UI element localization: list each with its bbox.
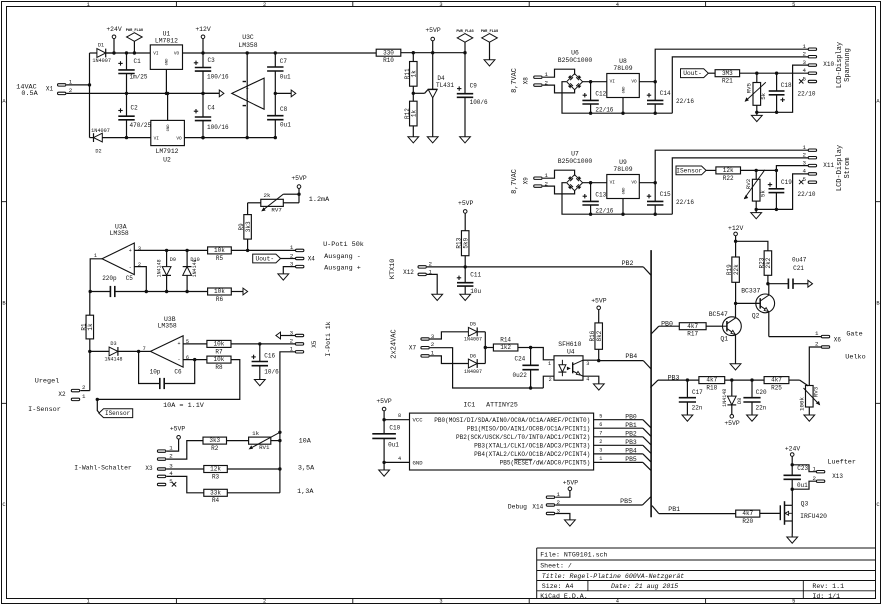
label 3,5A xyxy=(298,465,315,473)
svg-text:3: 3 xyxy=(439,2,442,8)
svg-text:C17: C17 xyxy=(692,389,703,396)
label 1.2mA xyxy=(309,196,330,204)
svg-text:R2: R2 xyxy=(211,445,219,452)
wire bridge minus U6 xyxy=(562,82,672,115)
svg-text:3,5A: 3,5A xyxy=(298,465,315,473)
svg-text:D2: D2 xyxy=(95,148,101,154)
svg-text:1k: 1k xyxy=(252,430,259,437)
svg-text:Uelko: Uelko xyxy=(845,353,865,361)
svg-text:File: NTG9101.sch: File: NTG9101.sch xyxy=(540,552,607,559)
svg-text:C16: C16 xyxy=(264,353,275,360)
svg-text:R22: R22 xyxy=(723,175,734,182)
svg-text:1N4007: 1N4007 xyxy=(464,369,482,375)
ground C11 xyxy=(460,294,471,300)
wire X3 pin2 to R2 xyxy=(166,441,203,460)
bus entry PB1 xyxy=(652,506,659,514)
trimmer RV5 xyxy=(745,73,768,114)
bridge rectifier U7 B250C1000 xyxy=(558,150,593,190)
ground below C9 xyxy=(460,137,471,143)
capacitor C1 xyxy=(118,51,148,95)
wire X14 pin2 PB5 xyxy=(555,498,642,505)
svg-text:2k2: 2k2 xyxy=(765,257,772,268)
svg-text:X6: X6 xyxy=(834,337,842,344)
ground below C16 xyxy=(254,380,265,386)
no-connect arrow R6 xyxy=(243,288,248,295)
bus entry PB4 xyxy=(643,361,651,369)
wire bridge minus U7 xyxy=(562,183,672,216)
svg-text:C11: C11 xyxy=(470,271,481,278)
svg-text:10A: 10A xyxy=(299,437,312,445)
wire U3B minus row xyxy=(183,358,207,361)
svg-text:2: 2 xyxy=(803,151,807,158)
svg-text:4k7: 4k7 xyxy=(706,377,717,384)
svg-text:2k: 2k xyxy=(264,192,271,199)
svg-text:R18: R18 xyxy=(706,385,717,392)
capacitor C6 feedback xyxy=(139,351,195,389)
svg-text:U-Poti 50k: U-Poti 50k xyxy=(323,241,364,249)
resistor R4 xyxy=(204,489,280,504)
svg-text:0u22: 0u22 xyxy=(512,372,527,379)
label Uout- flag X4 xyxy=(253,254,296,263)
svg-text:C3: C3 xyxy=(208,57,216,64)
wire X10 pin1 9V xyxy=(655,49,808,81)
ground RV3 xyxy=(804,415,815,421)
capacitor C16 xyxy=(251,344,279,380)
capacitor C13 xyxy=(582,183,613,215)
svg-text:R21: R21 xyxy=(722,78,733,85)
svg-text:1N4007: 1N4007 xyxy=(91,128,110,134)
svg-text:330: 330 xyxy=(383,49,394,56)
svg-text:C6: C6 xyxy=(174,368,182,375)
capacitor C2 xyxy=(118,93,151,139)
svg-text:5: 5 xyxy=(599,413,602,419)
power +5VP xyxy=(425,27,441,53)
svg-text:IRFU420: IRFU420 xyxy=(800,513,827,520)
svg-text:PB2(SCK/USCK/SCL/T0/INT0/ADC1/: PB2(SCK/USCK/SCL/T0/INT0/ADC1/PCINT2) xyxy=(456,434,590,441)
wire to R23 xyxy=(736,241,768,251)
wire C23 bot to X13 pin2 xyxy=(791,481,817,491)
resistor R20 xyxy=(736,510,760,525)
title block xyxy=(537,548,876,600)
svg-text:10k: 10k xyxy=(214,247,225,254)
label PB1 xyxy=(668,506,680,513)
svg-text:10A = 1.1V: 10A = 1.1V xyxy=(163,402,205,410)
svg-text:U3C: U3C xyxy=(242,34,254,41)
svg-text:X10: X10 xyxy=(823,61,834,68)
svg-text:C7: C7 xyxy=(280,58,288,65)
svg-text:D1: D1 xyxy=(98,43,104,49)
svg-text:LCD-Display: LCD-Display xyxy=(836,145,844,191)
svg-text:Strom: Strom xyxy=(844,157,852,178)
svg-text:3M3: 3M3 xyxy=(722,70,733,77)
capacitor C18 xyxy=(769,73,792,114)
svg-text:U9: U9 xyxy=(619,159,627,166)
resistor R6 xyxy=(208,288,243,303)
svg-text:+5VP: +5VP xyxy=(170,426,186,433)
wire X7 pin2 down xyxy=(430,348,543,390)
wire R8 to sense xyxy=(96,360,240,401)
diode D1 xyxy=(90,43,115,65)
svg-text:U7: U7 xyxy=(571,150,579,157)
svg-text:PB5(RESET/dW/ADC0/PCINT5): PB5(RESET/dW/ADC0/PCINT5) xyxy=(500,459,591,466)
ground C20 xyxy=(747,415,758,421)
wire X10 pin2 gnd xyxy=(672,57,808,113)
svg-text:1N4007: 1N4007 xyxy=(92,58,111,64)
label 8,7VAC 0 xyxy=(511,169,519,194)
svg-text:RV5: RV5 xyxy=(746,82,753,93)
svg-text:VO: VO xyxy=(631,79,637,84)
svg-text:12k: 12k xyxy=(210,466,221,473)
svg-text:Q3: Q3 xyxy=(801,501,809,508)
svg-text:LM358: LM358 xyxy=(110,230,129,237)
svg-text:10/6: 10/6 xyxy=(264,369,279,376)
svg-text:2: 2 xyxy=(290,337,294,344)
svg-text:1k2: 1k2 xyxy=(500,344,511,351)
svg-text:Rev: 1.1: Rev: 1.1 xyxy=(812,583,844,590)
wire PB2 line xyxy=(427,266,643,268)
svg-text:C8: C8 xyxy=(280,106,288,113)
svg-text:VO: VO xyxy=(631,180,637,185)
svg-text:U6: U6 xyxy=(571,49,579,56)
label Luefter xyxy=(827,459,856,467)
regulator U9 78L09 xyxy=(607,159,640,214)
svg-text:C: C xyxy=(2,502,5,508)
svg-text:R6: R6 xyxy=(216,296,224,303)
svg-text:2: 2 xyxy=(813,475,817,482)
ground below RV2 xyxy=(751,209,762,218)
svg-text:U2: U2 xyxy=(163,156,171,163)
wire U3A plus input row xyxy=(134,249,207,252)
bus entry PB0 xyxy=(651,326,659,334)
svg-text:PWR_FLAG: PWR_FLAG xyxy=(126,29,143,33)
svg-text:5k: 5k xyxy=(759,190,766,197)
capacitor C7 xyxy=(267,51,291,95)
connector X5 xyxy=(290,329,318,353)
label Uelko xyxy=(845,353,865,361)
svg-text:5: 5 xyxy=(803,75,807,82)
svg-text:1: 1 xyxy=(87,2,90,8)
no-connect arrow X5 pin3 xyxy=(276,332,295,339)
svg-text:22k: 22k xyxy=(733,264,740,275)
label KTX10 xyxy=(389,259,397,279)
wire X10 pin3 loop xyxy=(757,65,808,112)
svg-text:KiCad E.D.A.: KiCad E.D.A. xyxy=(540,593,587,600)
connector 0 xyxy=(523,71,549,87)
svg-text:+5VP: +5VP xyxy=(591,298,607,305)
label 10A xyxy=(299,437,312,445)
svg-text:PB4: PB4 xyxy=(625,353,637,360)
svg-text:PB4: PB4 xyxy=(625,447,637,454)
svg-text:1: 1 xyxy=(599,456,602,462)
wire Q2 emitter to X6 xyxy=(769,336,822,338)
svg-text:5: 5 xyxy=(792,2,795,8)
svg-text:78L09: 78L09 xyxy=(613,166,632,173)
label 14VAC 0.5A xyxy=(16,83,38,98)
wire 0 to bridge U6 xyxy=(543,69,575,93)
diode D8 1N4148 xyxy=(722,380,743,414)
svg-text:C10: C10 xyxy=(389,425,400,432)
resistor R7 xyxy=(207,340,231,355)
svg-text:R20: R20 xyxy=(742,518,753,525)
svg-text:Ausgang -: Ausgang - xyxy=(324,253,361,261)
connector X4 xyxy=(290,244,315,268)
svg-text:PB0(MOSI/DI/SDA/AIN0/OC0A/OC1A: PB0(MOSI/DI/SDA/AIN0/OC0A/OC1A/AREF/PCIN… xyxy=(434,417,590,424)
svg-text:2: 2 xyxy=(549,377,552,383)
ground IC1 xyxy=(379,462,390,476)
transistor Q1 BC547 xyxy=(706,303,741,363)
svg-text:5: 5 xyxy=(792,599,795,605)
capacitor C12 xyxy=(582,82,613,114)
diode D2 xyxy=(90,128,127,154)
svg-text:PB2: PB2 xyxy=(625,430,637,437)
svg-text:1k: 1k xyxy=(87,323,94,331)
svg-text:+24V: +24V xyxy=(785,446,801,453)
svg-text:3: 3 xyxy=(439,599,442,605)
svg-text:Gate: Gate xyxy=(846,331,862,339)
svg-text:3: 3 xyxy=(290,329,294,336)
svg-text:X2: X2 xyxy=(58,391,66,398)
label Ausgang - xyxy=(324,253,361,261)
svg-text:1m/25: 1m/25 xyxy=(130,74,148,81)
svg-text:Debug: Debug xyxy=(508,503,527,510)
wire X1 pin2 mid rail xyxy=(67,92,220,94)
label Debug xyxy=(508,503,527,510)
svg-text:Spannung: Spannung xyxy=(844,48,852,82)
svg-text:22/16: 22/16 xyxy=(676,199,694,206)
svg-text:22/16: 22/16 xyxy=(595,106,613,113)
power +5VP IC1 xyxy=(376,398,392,420)
svg-text:C24: C24 xyxy=(514,356,525,363)
wire X14 pin3 gnd xyxy=(555,514,570,520)
svg-text:LM7812: LM7812 xyxy=(155,38,178,45)
svg-text:2: 2 xyxy=(599,439,602,445)
connector X11 xyxy=(799,144,835,184)
wire R14 row xyxy=(485,347,493,349)
svg-text:R7: R7 xyxy=(215,348,223,355)
svg-text:X7: X7 xyxy=(409,345,417,352)
wire R14 to opto xyxy=(518,346,554,360)
wire top rail xyxy=(106,52,377,54)
wire IC1 pin PB4 xyxy=(594,447,652,462)
wire IC1 GND pin xyxy=(384,456,409,463)
svg-text:2: 2 xyxy=(815,340,819,347)
svg-text:U1: U1 xyxy=(163,30,171,37)
svg-text:C2: C2 xyxy=(131,105,139,112)
wire U3A minus feedback xyxy=(134,267,148,294)
resistor R1 xyxy=(80,292,94,391)
capacitor C8 xyxy=(267,93,291,137)
label 2x24VAC xyxy=(391,329,399,358)
svg-text:220p: 220p xyxy=(102,275,117,282)
svg-text:GND: GND xyxy=(166,58,170,66)
svg-text:10k: 10k xyxy=(214,341,225,348)
svg-text:+5VP: +5VP xyxy=(376,398,392,405)
svg-text:C12: C12 xyxy=(595,90,606,97)
power +24V Q3 xyxy=(785,446,801,467)
resistor R14 xyxy=(493,337,518,352)
wire U3B plus row xyxy=(183,343,207,345)
svg-text:X14: X14 xyxy=(532,503,543,510)
svg-text:BC337: BC337 xyxy=(741,287,760,294)
wire opto pin3 xyxy=(583,359,600,362)
label ISensor flag X2 xyxy=(97,399,132,417)
svg-text:2: 2 xyxy=(263,2,266,8)
svg-text:1N4148: 1N4148 xyxy=(104,357,122,363)
svg-text:LCD-Display: LCD-Display xyxy=(836,42,844,88)
resistor R13 xyxy=(456,231,470,269)
svg-text:D6: D6 xyxy=(470,354,476,360)
svg-text:12k: 12k xyxy=(723,167,734,174)
capacitor C11 xyxy=(457,267,482,295)
svg-text:ISensor: ISensor xyxy=(105,410,131,417)
wire IC1 VCC pin xyxy=(382,413,409,421)
svg-text:Ausgang +: Ausgang + xyxy=(324,264,361,272)
bus line xyxy=(650,250,652,517)
svg-text:Title: Regel-Platine 600VA-Net: Title: Regel-Platine 600VA-Netzgerät xyxy=(542,573,684,580)
svg-text:22/16: 22/16 xyxy=(676,98,694,105)
svg-text:PB0: PB0 xyxy=(625,413,637,420)
capacitor C23 xyxy=(784,465,809,489)
svg-text:I-Sensor: I-Sensor xyxy=(28,406,61,414)
svg-text:1: 1 xyxy=(82,393,86,400)
svg-text:VI: VI xyxy=(610,180,616,185)
power +5VP D8 xyxy=(724,415,740,427)
transistor Q2 BC337 xyxy=(736,284,775,337)
svg-text:1: 1 xyxy=(290,244,294,251)
power +5VP X14 xyxy=(563,479,579,490)
capacitor C10 xyxy=(372,420,400,464)
svg-text:D9: D9 xyxy=(170,257,176,263)
svg-text:PB1(MISO/DO/AIN1/OC0B/OC1A/PCI: PB1(MISO/DO/AIN1/OC0B/OC1A/PCINT1) xyxy=(467,425,590,432)
wire X4 pin3 gnd xyxy=(283,267,295,274)
svg-text:LM7912: LM7912 xyxy=(155,148,178,155)
svg-text:7: 7 xyxy=(599,431,602,437)
power +12V xyxy=(195,26,211,55)
svg-text:PB5: PB5 xyxy=(625,456,637,463)
svg-text:C5: C5 xyxy=(126,275,134,282)
svg-text:SFH610: SFH610 xyxy=(558,341,581,348)
wire PB4 line xyxy=(599,360,644,362)
svg-text:5k: 5k xyxy=(760,92,767,99)
wire U9 output xyxy=(639,181,657,184)
svg-text:Luefter: Luefter xyxy=(827,459,856,467)
label I-Wahl-Schalter xyxy=(74,465,132,472)
connector X2 xyxy=(58,384,86,400)
regulator U1 LM7812 xyxy=(150,30,182,95)
svg-text:PWR_FLAG: PWR_FLAG xyxy=(456,30,473,34)
svg-text:R5: R5 xyxy=(216,255,224,262)
svg-text:1: 1 xyxy=(548,361,551,367)
svg-text:2: 2 xyxy=(290,252,294,259)
power +5VP X3 xyxy=(170,426,186,439)
svg-text:22n: 22n xyxy=(755,405,766,412)
svg-text:Q2: Q2 xyxy=(752,312,760,319)
svg-text:X9: X9 xyxy=(523,177,530,185)
power +5VP R13 xyxy=(458,200,474,231)
svg-text:X1: X1 xyxy=(46,86,54,93)
svg-text:+12V: +12V xyxy=(195,26,211,33)
ground Q1 xyxy=(730,364,741,370)
label LCD-Display Strom xyxy=(836,145,852,191)
label U-Poti 50k xyxy=(323,241,364,249)
svg-text:Id: 1/1: Id: 1/1 xyxy=(812,593,840,600)
svg-text:100/6: 100/6 xyxy=(470,99,488,106)
svg-text:VI: VI xyxy=(610,79,616,84)
wire X3 pin3 to R3 xyxy=(166,468,203,470)
connector X6 xyxy=(815,330,841,348)
svg-text:C21: C21 xyxy=(793,265,804,272)
wire X11 pin2 gnd xyxy=(672,158,808,214)
svg-text:R17: R17 xyxy=(687,331,698,338)
wire IC1 pin PB0 xyxy=(594,413,652,428)
svg-text:22/16: 22/16 xyxy=(595,207,613,214)
label PB2 xyxy=(622,260,634,267)
svg-text:LM358: LM358 xyxy=(238,42,257,49)
diode D10 1N4148 xyxy=(183,250,200,293)
svg-text:100/16: 100/16 xyxy=(207,124,229,131)
svg-text:3: 3 xyxy=(586,361,589,367)
svg-text:4: 4 xyxy=(398,456,401,462)
svg-text:GND: GND xyxy=(622,86,626,94)
op-amp U3A xyxy=(94,223,141,274)
wire U3A output xyxy=(89,259,103,293)
svg-text:1.2mA: 1.2mA xyxy=(309,196,330,204)
svg-text:R8: R8 xyxy=(215,364,223,371)
wire R20 to gate xyxy=(760,512,781,514)
capacitor C20 xyxy=(743,380,767,415)
label Ausgang + xyxy=(324,264,361,272)
svg-text:C19: C19 xyxy=(781,179,792,186)
wire X7 pin1 to D6 xyxy=(430,356,469,364)
wire mid rail stub left xyxy=(201,92,219,95)
svg-text:22/10: 22/10 xyxy=(798,90,816,97)
svg-text:1k: 1k xyxy=(411,110,418,118)
label 1,3A xyxy=(297,488,314,496)
svg-text:0u1: 0u1 xyxy=(280,122,291,129)
svg-text:TL431: TL431 xyxy=(436,82,454,89)
capacitor C5 xyxy=(90,275,207,297)
wire PB1 to R20 xyxy=(659,513,736,515)
svg-text:PB2: PB2 xyxy=(622,260,634,267)
regulator U8 78L09 xyxy=(607,58,640,113)
ground below RV5 xyxy=(751,112,762,121)
connector 0 xyxy=(523,172,549,188)
ground below R12 xyxy=(408,137,419,143)
svg-text:C15: C15 xyxy=(660,191,671,198)
resistor R3 xyxy=(204,466,280,481)
wire mid rail stub right xyxy=(275,92,291,94)
svg-text:8,7VAC: 8,7VAC xyxy=(511,169,519,194)
svg-text:10k: 10k xyxy=(214,356,225,363)
bus entry PB2 xyxy=(643,267,651,275)
svg-text:X12: X12 xyxy=(403,269,414,276)
svg-text:10p: 10p xyxy=(150,368,161,375)
label PB3 xyxy=(668,374,680,381)
svg-text:4: 4 xyxy=(616,2,619,8)
svg-text:78L09: 78L09 xyxy=(613,65,632,72)
wire R21 to X10 pin4 xyxy=(740,72,809,75)
svg-text:8k2: 8k2 xyxy=(596,330,603,341)
svg-text:0u1: 0u1 xyxy=(388,441,399,448)
resistor R9 xyxy=(238,215,252,251)
ground below D4 xyxy=(427,137,438,143)
svg-text:B250C1000: B250C1000 xyxy=(558,57,593,64)
svg-text:C18: C18 xyxy=(781,82,792,89)
op-amp U3C power unit xyxy=(232,34,264,138)
label I-Sensor xyxy=(28,406,61,414)
wire IC1 pin PB2 xyxy=(594,430,652,445)
connector X10 xyxy=(799,43,835,84)
